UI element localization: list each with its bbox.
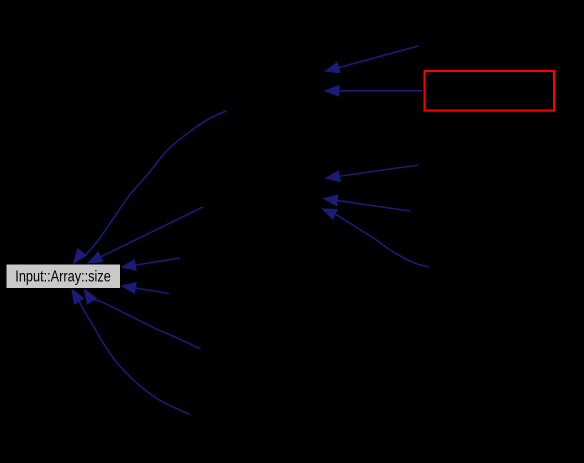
edge: node10 -> node3 [326, 165, 419, 182]
edge: caller node3 -> Input::Array::size [88, 207, 203, 263]
edge: node12 -> node3 (curve) [322, 209, 429, 267]
edge: node11 -> node3 [324, 195, 411, 211]
svg-text:Input::Array::size: Input::Array::size [15, 269, 111, 286]
edge: caller node2 -> Input::Array::size (long arc) [74, 111, 228, 264]
node: Input::Array::size (current function, grey fill) [6, 264, 121, 289]
node: caller node9 (red border, truncated) [425, 71, 555, 111]
edge: caller node6 -> Input::Array::size (curve) [84, 289, 200, 349]
edge: caller node4 -> Input::Array::size [122, 258, 181, 270]
edge: red node9 -> node2 (horizontal) [325, 85, 423, 96]
edge: caller node5 -> Input::Array::size [122, 283, 170, 294]
edge: node8 -> node2 [325, 46, 418, 73]
edge: caller node7 -> Input::Array::size (curve) [72, 289, 190, 414]
